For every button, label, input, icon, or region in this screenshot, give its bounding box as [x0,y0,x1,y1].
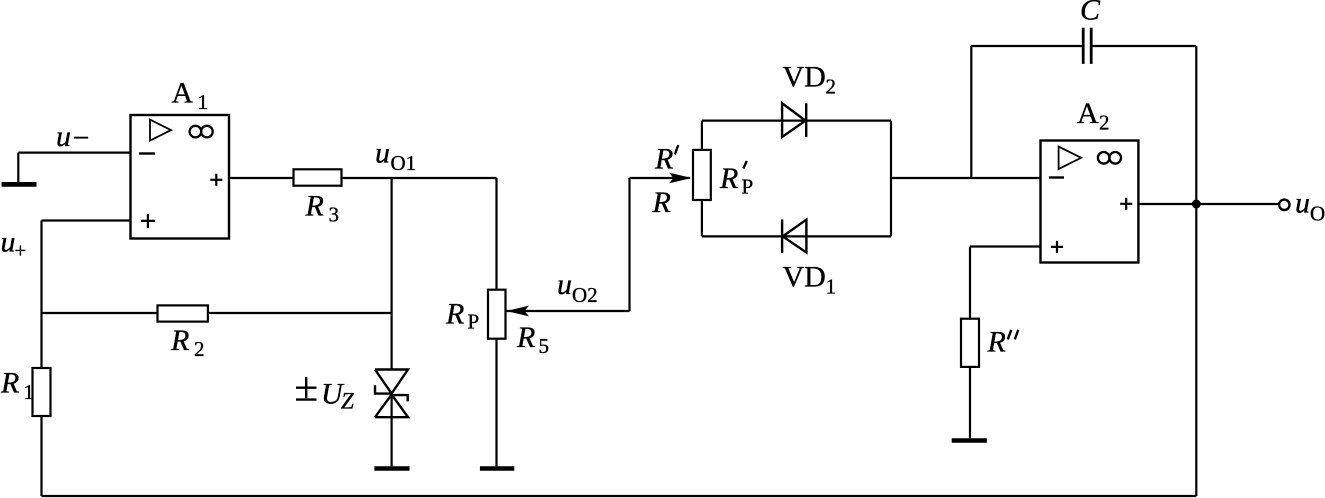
diode loop top wire [702,119,891,121]
svg-text:O2: O2 [572,283,598,307]
resistor R2 [158,305,208,321]
wire node uO1 down to zener [391,178,393,370]
svg-text:C: C [1080,0,1101,27]
wire R1 bottom to bottom rail [40,416,42,496]
svg-text:u: u [1295,187,1310,220]
svg-text:VD: VD [783,60,826,93]
wire R'' to ground [969,367,971,439]
svg-text:R: R [987,326,1006,359]
node uO1 label [375,137,416,176]
svg-text:2: 2 [1099,111,1110,135]
svg-text:u: u [557,268,572,301]
label R (below arrow) [652,186,671,219]
op-amp A1 [131,115,230,239]
svg-text:R: R [0,366,19,399]
svg-text:O1: O1 [391,151,417,175]
node (junction dot) [1192,200,1201,209]
resistor R1 [33,368,51,416]
wire u+ input to A1 [42,219,131,221]
label A2 [1077,97,1110,135]
ground (under zener) [374,466,409,470]
resistor R3 [294,169,342,185]
svg-text:Z: Z [341,389,354,414]
op-amp A2 [1041,141,1139,263]
label R-prime (above arrow) [654,142,673,175]
ground (under RP) [480,466,514,470]
diode loop right vertical [890,121,892,237]
svg-text:R: R [170,324,189,357]
svg-text:5: 5 [539,334,550,358]
svg-text:u: u [56,120,71,153]
svg-text:R: R [516,321,535,354]
svg-text:O: O [1310,202,1325,226]
svg-text:P: P [742,175,754,199]
resistor R'P [693,150,711,200]
wire zener to ground [391,417,393,466]
svg-text:+: + [15,239,27,263]
wire uO2 vertical [628,178,630,311]
wire with arrow into R'P [630,177,691,179]
svg-text:A: A [1077,97,1099,130]
svg-text:R: R [719,162,738,195]
label uO2 [557,268,598,307]
wire C feedback left vertical [970,46,972,178]
svg-text:1: 1 [24,380,35,404]
wire A2 output to node [1138,203,1278,205]
svg-text:P: P [468,310,480,334]
label u- [56,120,89,155]
svg-text:R: R [652,186,671,219]
svg-text:R: R [445,298,464,331]
svg-text:2: 2 [826,75,837,99]
svg-text:2: 2 [194,337,205,361]
wire left vertical (u+ node down to R1) [40,221,42,369]
wire R'P stubs [701,121,703,150]
svg-text:u: u [1,226,16,259]
wire A2 noninverting input [970,245,1041,247]
diode loop bottom wire [702,235,891,237]
resistor R'' [961,319,979,367]
svg-text:R: R [654,142,673,175]
wire to R2 left [42,312,158,314]
svg-text:A: A [172,77,194,110]
svg-text:VD: VD [783,261,826,294]
diode VD1 [783,220,807,253]
capacitor C [1082,28,1085,64]
diode VD2 [782,103,805,137]
svg-text:1: 1 [826,275,837,299]
zener diode pair (bidirectional) [375,370,408,394]
svg-text:u: u [375,137,390,170]
wiper arrow into RP [506,310,630,312]
wire right vertical down to bottom rail [1195,46,1197,496]
svg-text:3: 3 [329,203,340,227]
label plus-minus UZ [296,377,317,400]
svg-text:R: R [305,189,324,222]
wire RP bottom to ground [495,339,497,467]
svg-text:1: 1 [198,90,209,114]
label uO [1295,187,1325,226]
wire R2 right to zener branch [208,312,392,314]
bottom feedback wire [42,495,1197,497]
label R5 [516,321,549,358]
wire uO1 corner down to RP [495,178,497,290]
ground (under R'') [952,438,987,442]
wire A1 output to R3 [229,177,294,179]
potentiometer RP [488,290,506,339]
wire to capacitor [971,45,1083,47]
label u+ [1,226,27,263]
ground (top-left) [17,153,19,183]
wire capacitor to right vertical [1091,45,1196,47]
label A1 [172,77,209,114]
wire u-minus input to A1 [18,152,130,154]
output terminal circle [1279,200,1289,210]
wire diode loop to A2 inverting input [891,177,1041,179]
svg-text:−: − [73,122,90,155]
wire R3 to node uO1 and on to RP corner [342,177,497,179]
